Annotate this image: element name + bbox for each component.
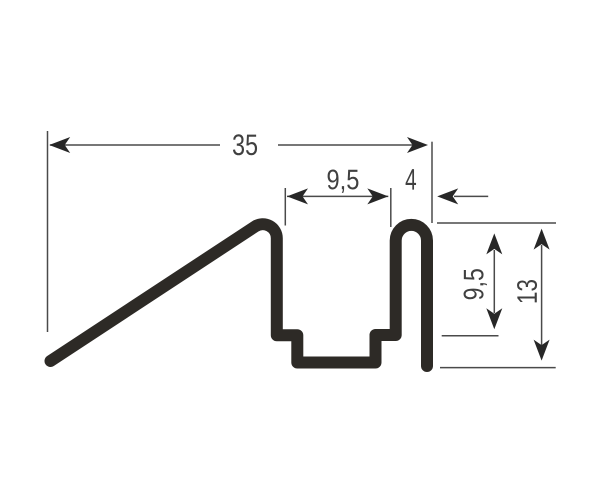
dimension line 9,5 (287, 195, 388, 197)
arrow of 4 (outside, pointing left) (437, 188, 458, 204)
dimension line 35 right segment (278, 144, 414, 146)
dimension line 9,5 vertical (493, 250, 495, 313)
profile outline (aluminium section) (51, 224, 428, 366)
label 9,5 vertical (464, 269, 487, 299)
label 35 (233, 134, 257, 155)
arrow left of 35 (49, 137, 70, 153)
extension line left (x=47.5) (47, 131, 49, 332)
arrow right of 35 (407, 137, 428, 153)
extension line 9,5 right (x=390.8) (390, 188, 392, 227)
extension line top right (y=223) (437, 222, 556, 224)
label 9,5 (328, 169, 359, 192)
arrow down of 13 vertical (534, 340, 550, 361)
extension line 9,5 bottom (y=335.8) (442, 335, 499, 337)
leader line of 4 arrow (454, 195, 488, 197)
arrow down of 9,5 vertical (486, 308, 502, 329)
dimension line 35 left segment (50, 144, 220, 146)
arrow left of 9,5 (287, 188, 308, 204)
label 13 vertical (517, 280, 537, 302)
arrow right of 9,5 (367, 188, 388, 204)
extension line 13 bottom (y=367.6) (440, 367, 556, 369)
arrow up of 13 vertical (534, 229, 550, 250)
dimension line 13 vertical (541, 245, 543, 345)
arrow up of 9,5 vertical (486, 233, 502, 254)
extension line 9,5 left (x=285.3) (284, 188, 286, 226)
extension line right (x=432) (431, 142, 433, 223)
label 4 (406, 169, 416, 189)
